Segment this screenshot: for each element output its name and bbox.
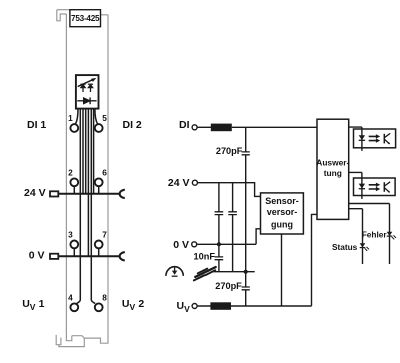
svg-text:0 V: 0 V bbox=[173, 239, 189, 251]
svg-text:DI 2: DI 2 bbox=[123, 119, 142, 131]
svg-text:24 V: 24 V bbox=[168, 177, 190, 189]
svg-text:270pF: 270pF bbox=[216, 146, 243, 156]
svg-text:tung: tung bbox=[324, 168, 342, 178]
svg-text:7: 7 bbox=[102, 229, 107, 239]
svg-text:6: 6 bbox=[102, 167, 107, 177]
svg-text:8: 8 bbox=[102, 292, 107, 302]
svg-text:Status: Status bbox=[332, 242, 358, 252]
svg-text:4: 4 bbox=[68, 292, 73, 302]
svg-text:1: 1 bbox=[68, 113, 73, 123]
svg-text:DI: DI bbox=[179, 119, 190, 131]
svg-text:753-425: 753-425 bbox=[71, 14, 100, 23]
svg-text:24 V: 24 V bbox=[24, 187, 46, 199]
svg-text:2: 2 bbox=[68, 167, 73, 177]
svg-text:Sensor-: Sensor- bbox=[265, 196, 299, 206]
svg-text:10nF: 10nF bbox=[194, 252, 216, 262]
svg-text:DI 1: DI 1 bbox=[27, 119, 46, 131]
svg-text:versor-: versor- bbox=[267, 207, 298, 217]
svg-text:Fehler: Fehler bbox=[362, 230, 388, 240]
svg-text:270pF: 270pF bbox=[215, 281, 242, 291]
svg-text:gung: gung bbox=[271, 219, 293, 229]
svg-text:0 V: 0 V bbox=[29, 250, 45, 262]
svg-text:3: 3 bbox=[68, 229, 73, 239]
svg-text:Auswer-: Auswer- bbox=[316, 158, 349, 168]
svg-text:5: 5 bbox=[102, 113, 107, 123]
